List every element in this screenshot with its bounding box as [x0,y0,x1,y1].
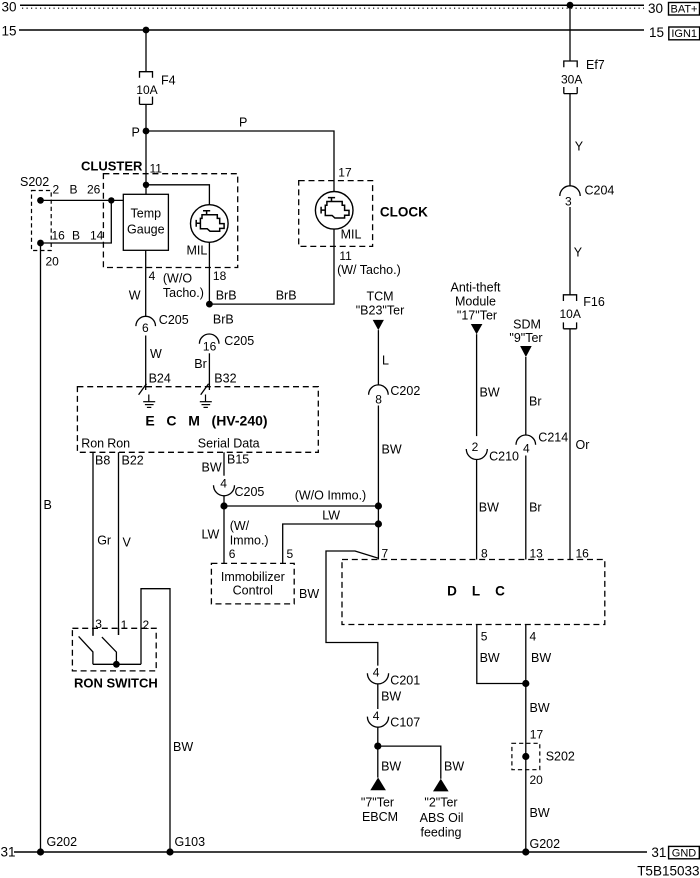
svg-text:C202: C202 [390,384,420,398]
svg-text:10A: 10A [136,83,157,97]
node EBCM/ABS junction [374,743,381,750]
svg-text:T5B15033: T5B15033 [637,864,699,878]
svg-text:15: 15 [2,24,17,39]
node riser top [108,197,114,203]
wire Ef7 to C204 [569,94,571,186]
svg-text:BW: BW [479,501,499,515]
wire W/O Immo branch [224,505,378,507]
svg-text:26: 26 [87,183,101,197]
wire F16 to DLC pin 16 [569,329,571,560]
svg-text:C107: C107 [390,716,420,730]
connector C202 pin 8 [369,384,421,406]
bus 15 wire [19,29,644,31]
node LW junction [375,520,382,527]
wire C205-4 to junction [223,496,225,506]
svg-text:Or: Or [576,438,590,452]
svg-text:4: 4 [149,269,156,283]
wire SDM to C214 [525,357,527,435]
wire C107 to EBCM junction [377,727,379,778]
svg-text:BW: BW [480,651,500,665]
fuse F16 [560,295,605,329]
svg-text:2: 2 [472,440,479,454]
svg-text:(W/ Tacho.): (W/ Tacho.) [337,263,401,277]
svg-text:BrB: BrB [216,289,237,303]
terminal IGN1 [669,27,700,40]
cluster box [103,174,237,268]
svg-text:B8: B8 [95,454,110,468]
svg-text:2: 2 [53,183,60,197]
svg-text:"7"Ter: "7"Ter [361,796,394,810]
wire C210 to DLC pin 8 [476,459,478,559]
svg-text:4: 4 [373,709,380,723]
node G103 [166,835,205,856]
svg-text:"B23"Ter: "B23"Ter [356,304,404,318]
wire C205 to ECM B24 [145,336,147,391]
switch pin 3 stub [92,628,94,635]
immobilizer control box [211,563,294,604]
terminal BAT+ [669,3,700,16]
svg-text:BW: BW [444,760,464,774]
svg-text:C205: C205 [159,313,189,327]
svg-text:W: W [129,289,141,303]
wire anti-theft to C210 [476,334,478,436]
svg-text:C201: C201 [390,674,420,688]
switch pin 1 stub [118,628,120,635]
svg-text:E C M (HV-240): E C M (HV-240) [145,413,267,429]
wire C204 to F16 [569,207,571,295]
node switch common [113,661,120,668]
svg-text:B: B [44,498,52,512]
wire S202 pin2 to temp gauge [41,199,124,201]
wire immobilizer pin 5 to LW line [283,524,379,563]
svg-text:CLOCK: CLOCK [380,205,428,220]
wire pin 2 to G103 [141,589,170,852]
svg-text:B: B [70,183,78,197]
svg-text:3: 3 [95,617,102,631]
wire F4 to node P [145,104,147,131]
lamp MIL clock [315,192,361,242]
svg-text:16: 16 [52,229,66,243]
svg-text:Immo.): Immo.) [230,534,269,548]
wire B down to G202 [40,243,42,852]
svg-text:17: 17 [530,728,544,742]
svg-text:BW: BW [531,651,551,665]
arrow to EBCM [361,778,398,825]
arrow to ABS oil feeding [420,779,464,840]
svg-text:8: 8 [375,392,382,406]
svg-text:Br: Br [194,357,207,371]
node cluster pin11 junction [143,182,149,188]
svg-text:18: 18 [213,269,227,283]
wire temp gauge to C205 [145,250,147,316]
svg-text:P: P [239,116,247,130]
connector C107 pin 4 [367,709,420,730]
bus 31 wire [14,851,647,853]
junction on bus 30 [567,2,574,9]
node W/O Immo junction [375,502,382,509]
wire C201 to C107 [377,684,379,709]
svg-text:30: 30 [2,0,17,15]
svg-text:CLUSTER: CLUSTER [81,159,143,174]
svg-text:20: 20 [530,773,544,787]
wire TCM to C202 [377,330,379,385]
svg-text:Anti-theft: Anti-theft [450,281,501,295]
svg-text:5: 5 [481,630,488,644]
arrow to TCM [356,290,404,331]
svg-text:LW: LW [202,528,220,542]
svg-text:Serial Data: Serial Data [198,437,260,451]
svg-text:C214: C214 [538,431,568,445]
svg-text:D L C: D L C [447,584,505,599]
svg-text:4: 4 [373,666,380,680]
svg-text:13: 13 [530,547,544,561]
temp gauge box [123,194,168,250]
wire riser [41,200,112,243]
svg-text:Ron: Ron [81,437,104,451]
svg-text:Ef7: Ef7 [586,58,605,72]
svg-text:BW: BW [530,701,550,715]
svg-text:RON SWITCH: RON SWITCH [74,676,158,691]
node BrB junction [206,301,213,308]
arrow to anti-theft module [450,281,501,335]
wire Ef7 drop from bus 30 [569,5,571,61]
splice S202 lower [512,743,575,769]
svg-text:"9"Ter: "9"Ter [509,331,542,345]
svg-text:3: 3 [565,195,572,209]
svg-text:W: W [150,347,162,361]
wire C205-16 to ECM B32 [208,353,210,390]
fuse Ef7 [561,58,605,94]
svg-text:2: 2 [143,618,150,632]
svg-text:31: 31 [651,845,666,860]
node pin5 joins pin4 [522,680,529,687]
svg-text:"2"Ter: "2"Ter [424,796,457,810]
svg-text:Immobilizer: Immobilizer [221,570,285,584]
svg-text:14: 14 [90,229,104,243]
svg-text:S202: S202 [20,175,49,189]
svg-text:4: 4 [523,441,530,455]
svg-text:16: 16 [203,340,217,354]
svg-text:Br: Br [529,501,542,515]
connector C210 pin 2 [466,440,519,463]
svg-text:V: V [123,536,132,550]
svg-text:BW: BW [202,461,222,475]
wire P down to cluster pin 11 [145,131,147,194]
connector C204 pin 3 [560,184,615,209]
switch blade 2 [102,637,117,664]
svg-text:(W/: (W/ [230,519,250,533]
svg-text:GND: GND [672,848,697,860]
node G202 right [522,837,560,856]
junction on bus 15 [143,27,150,34]
svg-text:F4: F4 [161,74,176,88]
svg-text:SDM: SDM [513,318,541,332]
svg-text:17: 17 [338,166,352,180]
svg-text:C205: C205 [224,334,254,348]
svg-text:Module: Module [455,295,496,309]
svg-text:"17"Ter: "17"Ter [457,309,497,323]
switch common rail [93,663,141,665]
wire branch to ABS [378,746,441,779]
wire ECM B8 to RON switch pin 3 [92,452,94,635]
DLC box [342,560,605,625]
splice S202 upper [20,175,51,251]
wire DLC pin 4 to G202 [525,625,527,853]
svg-text:BAT+: BAT+ [670,4,697,16]
svg-text:EBCM: EBCM [362,810,398,824]
wire ECM B22 to RON switch pin 1 [118,452,120,635]
svg-text:MIL: MIL [341,228,362,242]
svg-text:feeding: feeding [420,826,461,840]
RON switch box [72,628,156,671]
svg-text:BW: BW [381,690,401,704]
svg-text:Gr: Gr [97,534,111,548]
wire junction to MIL lamp [146,185,209,205]
svg-text:BrB: BrB [213,313,234,327]
wire DLC pin 5 drop [477,625,526,684]
svg-text:IGN1: IGN1 [671,28,697,40]
ground inside ECM at B24 [143,395,155,408]
svg-text:G202: G202 [47,835,78,849]
wire P branch to clock [146,131,334,192]
node G202 left [37,835,77,856]
connector C205 pin 4 [214,476,265,499]
svg-text:30: 30 [648,1,663,16]
bus 30 wire [20,5,644,8]
svg-text:Control: Control [233,584,273,598]
svg-text:F16: F16 [583,295,605,309]
svg-text:BW: BW [173,740,193,754]
svg-text:MIL: MIL [187,244,208,258]
svg-text:1: 1 [121,618,128,632]
svg-text:6: 6 [142,321,149,335]
svg-text:(W/O Immo.): (W/O Immo.) [295,489,367,503]
wire MIL lamp down [208,242,210,304]
svg-text:BW: BW [382,443,402,457]
ECM pin slash B24 [139,384,147,395]
svg-text:ABS Oil: ABS Oil [420,811,464,825]
connector C201 pin 4 [367,666,420,688]
svg-text:5: 5 [287,547,294,561]
switch blade 1 [79,636,93,664]
connector C214 pin 4 [516,431,568,456]
svg-text:BW: BW [480,386,500,400]
svg-text:11: 11 [339,249,352,263]
wire bus15 to F4 [145,30,147,72]
svg-text:30A: 30A [561,73,582,87]
svg-text:Temp: Temp [131,207,162,221]
svg-text:TCM: TCM [366,290,393,304]
svg-text:4: 4 [530,630,537,644]
svg-text:7: 7 [382,547,389,561]
wire BrB from clock [209,229,334,304]
svg-text:B22: B22 [122,454,144,468]
arrow to SDM [509,318,542,358]
svg-text:4: 4 [220,476,227,490]
clock box [299,181,373,247]
svg-text:G202: G202 [530,837,561,851]
svg-text:L: L [382,354,389,368]
svg-text:B: B [72,229,80,243]
svg-text:G103: G103 [175,835,206,849]
svg-text:BrB: BrB [276,289,297,303]
svg-text:(W/O: (W/O [163,272,192,286]
svg-text:Gauge: Gauge [127,223,165,237]
svg-text:Br: Br [529,395,542,409]
svg-text:6: 6 [229,547,236,561]
svg-text:B24: B24 [149,372,171,386]
svg-text:20: 20 [46,255,60,269]
node serial data junction [220,502,227,509]
node P [132,126,150,140]
lamp MIL cluster [187,205,229,258]
fuse F4 [136,72,175,105]
svg-text:S202: S202 [546,750,575,764]
svg-text:Y: Y [574,246,583,260]
svg-text:10A: 10A [560,307,581,321]
svg-text:Tacho.): Tacho.) [163,286,204,300]
svg-text:C205: C205 [235,485,265,499]
svg-text:BW: BW [530,806,550,820]
svg-text:B32: B32 [214,372,236,386]
svg-text:31: 31 [1,845,16,860]
svg-text:B15: B15 [227,453,249,467]
svg-text:Y: Y [575,140,584,154]
terminal GND [669,846,700,859]
svg-text:BW: BW [299,587,319,601]
connector C205 pin 16 [199,334,254,354]
ECM pin slash B32 [201,384,209,395]
svg-text:15: 15 [649,25,664,40]
svg-text:BW: BW [381,760,401,774]
svg-text:C204: C204 [585,184,615,198]
connector C205 pin 6 [136,313,189,335]
ECM box [77,387,318,453]
svg-text:Ron: Ron [107,437,130,451]
ground inside ECM at B32 [200,395,212,408]
wire LW down to immobilizer pin 6 [223,506,225,563]
wire C202 to DLC pin 7 [377,406,379,560]
wire ECM B15 to C205 [223,452,225,475]
svg-text:16: 16 [576,547,590,561]
svg-text:8: 8 [481,547,488,561]
svg-text:C210: C210 [489,450,519,464]
svg-text:LW: LW [322,509,340,523]
svg-text:P: P [132,126,140,140]
wire tap to EBCM branch [326,551,378,666]
wire C214 to DLC pin 13 [525,456,527,560]
